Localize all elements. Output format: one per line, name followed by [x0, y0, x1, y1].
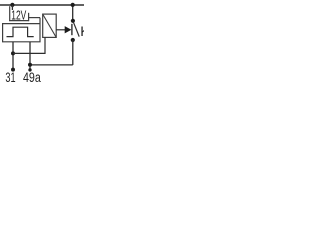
flasher unit outline: 12V compartment right edge — [28, 13, 30, 21]
node: junction dot left on rail — [10, 3, 14, 7]
wire: relay coil ground link — [13, 37, 45, 53]
pulse generator box U1 (square-wave oscillator) — [3, 18, 40, 42]
wire: bottom run to terminal 49a — [30, 64, 73, 66]
wire: +12V top rail (terminal 49) — [0, 4, 84, 6]
wire: U1 output down to 49a — [29, 42, 31, 71]
wire: coil to contact arrow — [56, 29, 65, 31]
svg-text:49a: 49a — [23, 70, 41, 85]
relay coil K1 diagonal — [43, 14, 57, 37]
node: junction dot right on rail — [71, 3, 75, 7]
node: contact pivot dot — [71, 19, 75, 23]
relay coil K1 (box with diagonal) — [43, 14, 57, 37]
wire: riser from top rail to contact pivot — [72, 5, 74, 21]
node: 49a terminal tip — [28, 68, 31, 71]
node: contact output dot — [71, 38, 75, 42]
flasher unit outline: 12V compartment bottom edge — [9, 20, 29, 22]
svg-text:12V: 12V — [11, 7, 26, 22]
wire: contact output down — [72, 40, 74, 65]
flasher unit outline: step to pulse box — [29, 17, 40, 19]
wire: stub from left junction down to 12V label — [11, 5, 13, 10]
svg-text:31: 31 — [5, 70, 15, 85]
flasher unit outline: 12V compartment left edge — [9, 6, 11, 21]
wire: U1 ground leg down to terminal 31 — [12, 42, 14, 70]
moving contact blade — [73, 22, 79, 36]
fixed contact bar — [71, 24, 73, 35]
node: 49a junction dot — [28, 63, 32, 67]
square-wave symbol inside U1 — [7, 27, 34, 36]
contact actuation arrow (filled arrowhead) — [65, 26, 72, 33]
node: ground junction dot — [11, 51, 15, 55]
svg-text:K: K — [80, 23, 84, 39]
node: terminal 31 dot — [11, 68, 15, 72]
